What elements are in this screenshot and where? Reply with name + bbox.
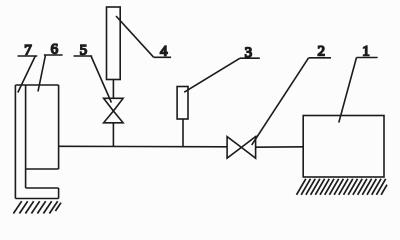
label 4 xyxy=(116,16,171,60)
label 6 xyxy=(38,42,63,92)
sensor 3 (small rectangle) xyxy=(177,87,188,120)
main pipe line left segment xyxy=(59,145,228,148)
main pipe line right segment xyxy=(256,146,304,148)
wire sensor3 stub xyxy=(182,119,184,147)
ground hatching right xyxy=(297,179,388,195)
valve 5 (vertical hourglass) xyxy=(104,98,124,123)
label 7 xyxy=(18,43,38,93)
frame base step xyxy=(26,188,59,199)
tube 4 (tall rectangle) xyxy=(107,7,121,80)
valve 2 (horizontal bowtie) xyxy=(227,137,256,159)
label 1 xyxy=(339,44,378,123)
block 6 (rectangle inside frame) xyxy=(26,85,59,169)
label 2 xyxy=(252,44,331,146)
block 1 (large rectangle) xyxy=(303,116,384,178)
wire tube4 to valve5 xyxy=(112,80,114,99)
wire valve5 to main line xyxy=(112,123,114,147)
label 5 xyxy=(74,43,112,103)
ground hatching left xyxy=(13,201,61,213)
frame plate 7 outline (left L-frame) xyxy=(15,85,58,199)
label 3 xyxy=(184,45,260,92)
